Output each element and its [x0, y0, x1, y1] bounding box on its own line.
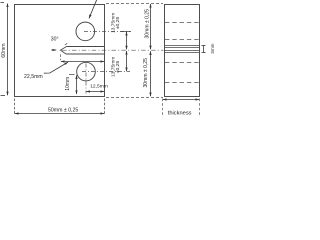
dim thickness line [163, 99, 199, 101]
dim 13.75 top line [126, 32, 128, 50]
dim 60mm line [7, 4, 9, 96]
svg-text:50mm ± 0,25: 50mm ± 0,25 [48, 107, 78, 113]
dim 50mm extension right [104, 99, 106, 115]
svg-text:±0,25: ±0,25 [115, 61, 121, 73]
svg-text:thickness: thickness [168, 111, 192, 117]
projection dashes top edge [106, 3, 163, 5]
dim 3mm bracket [203, 46, 205, 53]
top hole centerline horizontal [84, 31, 131, 33]
projection dashes bottom edge [106, 97, 163, 99]
dim 30mm top line [150, 4, 152, 49]
notch slot bottom line [66, 53, 105, 55]
dim 60mm tick bottom [1, 95, 6, 97]
side view hidden line hole1 top [165, 22, 199, 24]
side view hidden line hole2 bottom [165, 82, 199, 84]
hole top circle [76, 22, 95, 41]
notch flank tick [65, 43, 67, 45]
dim 30mm bottom line [150, 51, 152, 96]
svg-text:30°: 30° [51, 36, 59, 42]
leader 22.5mm [44, 62, 68, 73]
hole bottom circle [77, 62, 96, 81]
leader 30deg [51, 49, 56, 51]
dim 13.75 top ext tick [121, 31, 131, 33]
svg-text:10mm: 10mm [65, 77, 71, 91]
dim 50mm line [15, 113, 104, 115]
svg-text:3mm: 3mm [210, 43, 215, 53]
bottom hole centerline vertical [85, 64, 87, 94]
svg-text:30mm ± 0,25: 30mm ± 0,25 [145, 9, 151, 39]
dim 10mm line [76, 75, 78, 94]
notch V tip [60, 47, 66, 55]
dim 13.75 bottom line [126, 51, 128, 71]
side view hidden line hole1 bottom [165, 39, 199, 41]
notch tip extension dashed [60, 54, 62, 60]
bottom hole centerline horizontal [82, 71, 130, 73]
dim 60mm tick top [1, 2, 5, 4]
arrow leader to top hole [89, 0, 97, 18]
svg-text:22,5mm: 22,5mm [24, 74, 43, 80]
side view hidden line hole2 top [165, 62, 199, 64]
dim 10mm tick [69, 74, 75, 76]
svg-text:60mm: 60mm [1, 43, 7, 57]
dim 12.5mm line [86, 91, 104, 93]
svg-text:30mm ± 0,25: 30mm ± 0,25 [143, 58, 149, 88]
plate outline (front view) [15, 5, 105, 97]
notch slot top line [67, 46, 105, 48]
side view outline [165, 5, 200, 97]
side view notch lines [165, 46, 200, 53]
svg-text:12,5mm: 12,5mm [90, 83, 108, 89]
svg-text:±0,25: ±0,25 [115, 17, 121, 29]
dim 50mm extension left [14, 99, 16, 115]
dim 22.5mm line [61, 61, 104, 63]
thickness extension left [162, 99, 164, 118]
notch centerline [62, 49, 164, 51]
thickness extension right [199, 99, 201, 118]
